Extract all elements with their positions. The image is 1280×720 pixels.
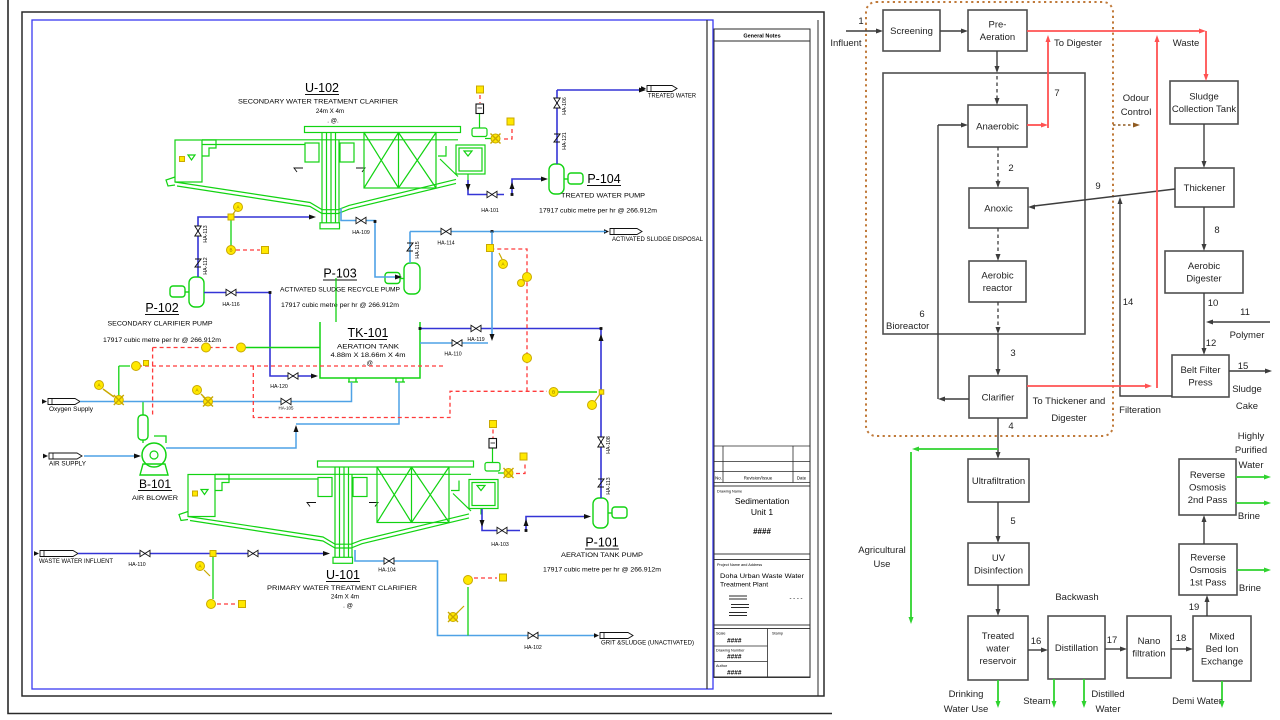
actuator HA-121 [554, 134, 560, 142]
instrument cluster U-102 drive [477, 86, 484, 93]
valve HA-110b [452, 340, 462, 346]
general notes header [714, 40, 810, 42]
svg-text:Revision/Issue: Revision/Issue [744, 476, 773, 481]
svg-text:11: 11 [1240, 307, 1250, 318]
svg-text:18: 18 [1176, 633, 1187, 644]
svg-text:Agricultural: Agricultural [858, 545, 906, 556]
dashed arrow anoxic to aerobic [997, 228, 999, 255]
svg-text:Bioreactor: Bioreactor [886, 321, 929, 332]
svg-text:####: #### [727, 638, 742, 645]
svg-text:Press: Press [1188, 378, 1213, 389]
svg-text:TREATED WATER: TREATED WATER [648, 93, 696, 100]
svg-text:1st Pass: 1st Pass [1190, 577, 1227, 588]
pipe air supply [84, 455, 139, 457]
signal dash U-101 agitator [474, 577, 497, 579]
sheet border [22, 12, 824, 696]
box Aerobic reactor [969, 261, 1026, 302]
signal dash U-101 top [493, 430, 525, 474]
svg-text:14: 14 [1123, 297, 1134, 308]
svg-text:9: 9 [1095, 181, 1100, 192]
signal dash main loop [153, 347, 238, 349]
svg-text:Distillation: Distillation [1055, 643, 1098, 654]
svg-text:WASTE WATER INFLUENT: WASTE WATER INFLUENT [39, 558, 113, 565]
svg-text:HA-106: HA-106 [562, 97, 568, 115]
svg-text:Exchange: Exchange [1201, 656, 1243, 667]
svg-text:HA-108: HA-108 [606, 436, 612, 454]
svg-text:Mixed: Mixed [1209, 631, 1234, 642]
svg-text:B-101: B-101 [139, 477, 171, 491]
svg-text:Doha Urban Waste Water: Doha Urban Waste Water [720, 573, 805, 580]
arrow 16 reservoir to distillation [1028, 649, 1042, 651]
svg-text:24m X 4m: 24m X 4m [331, 594, 359, 601]
svg-text:Oxygen Supply: Oxygen Supply [49, 406, 94, 413]
svg-text:Disinfection: Disinfection [974, 566, 1023, 577]
svg-text:A: A [97, 383, 100, 388]
air blower B-101 [142, 443, 166, 467]
svg-text:HA-115: HA-115 [415, 241, 421, 258]
pipe U-101 underflow to P-101 [482, 509, 588, 531]
pipe U-101 drain [355, 550, 594, 636]
actuator HA-115 [407, 243, 413, 251]
valve HA-109 [356, 217, 366, 223]
pipe oxygen supply [80, 382, 352, 402]
svg-text:AIR SUPPLY: AIR SUPPLY [49, 461, 86, 468]
svg-text:####: #### [753, 527, 771, 536]
instrument left tank marks [180, 157, 185, 162]
svg-text:HA-120: HA-120 [270, 384, 288, 390]
arrow UV to reservoir [997, 585, 999, 610]
svg-text:Aerobic: Aerobic [981, 271, 1013, 282]
svg-text:Date: Date [797, 476, 807, 481]
pump P-102 [189, 277, 204, 307]
svg-text:17917 cubic metre per hr @ 266: 17917 cubic metre per hr @ 266.912m [539, 208, 657, 215]
svg-text:Polymer: Polymer [1230, 330, 1265, 341]
svg-text:Reverse: Reverse [1190, 470, 1225, 481]
box Reverse Osmosis 2nd Pass [1179, 459, 1236, 515]
arrow pre-aeration down [996, 51, 998, 67]
svg-text:HA-113: HA-113 [606, 477, 612, 494]
box Thickener [1175, 168, 1234, 207]
svg-text:water: water [985, 643, 1009, 654]
pipe U-102 underflow to P-103 [341, 208, 400, 277]
svg-text:HA-109: HA-109 [352, 230, 370, 236]
arrow influent [846, 30, 877, 32]
svg-text:17917 cubic metre per hr @ 266: 17917 cubic metre per hr @ 266.912m [103, 337, 221, 344]
svg-text:Treated: Treated [982, 631, 1014, 642]
svg-text:Unit 1: Unit 1 [751, 507, 773, 517]
svg-text:Screening: Screening [890, 26, 933, 37]
svg-text:AERATION TANK PUMP: AERATION TANK PUMP [561, 552, 643, 559]
valve HA-110a [140, 550, 150, 556]
arrow 19 mixed bed to RO1 [1206, 601, 1208, 616]
valve HA-105 [281, 398, 291, 404]
signal dash U-102 top [480, 95, 512, 139]
pump P-104 [549, 164, 564, 194]
box Aerobic Digester [1165, 251, 1243, 293]
drawing name box [714, 486, 810, 554]
svg-text:A: A [501, 262, 504, 267]
valve HA-120 [288, 373, 298, 379]
svg-text:HA-104: HA-104 [378, 568, 396, 574]
arrow P-101 riser [599, 334, 604, 341]
svg-text:Odour: Odour [1123, 93, 1149, 104]
svg-text:B: B [229, 248, 232, 253]
flag Oxygen Supply [48, 399, 80, 405]
green drop influent [212, 554, 214, 600]
instrument green TK line [202, 343, 211, 352]
svg-text:Digester: Digester [1051, 413, 1086, 424]
svg-text:A: A [195, 388, 198, 393]
svg-text:. @: . @ [343, 603, 353, 610]
instrument cluster U-101 drive [490, 421, 497, 428]
svg-text:4: 4 [1008, 421, 1013, 432]
valve HA-106 [554, 98, 560, 108]
svg-text:Pre-: Pre- [989, 20, 1007, 31]
svg-text:Reverse: Reverse [1190, 552, 1225, 563]
pipe P-104 riser [556, 90, 558, 164]
filtrate return line 14 [1120, 203, 1172, 396]
polymer feed [1212, 321, 1270, 323]
scale/author box [714, 629, 810, 678]
svg-text:2: 2 [1008, 163, 1013, 174]
svg-text:PRIMARY WATER TREATMENT CLARIF: PRIMARY WATER TREATMENT CLARIFIER [267, 585, 418, 592]
svg-text:Drinking: Drinking [949, 689, 984, 700]
svg-text:Drawing Name: Drawing Name [717, 490, 742, 494]
box Anaerobic [968, 105, 1027, 147]
svg-text:17: 17 [1107, 635, 1118, 646]
box Mixed Bed Ion Exchange [1193, 616, 1251, 681]
svg-text:HA-105: HA-105 [279, 406, 294, 411]
svg-text:Aerobic: Aerobic [1188, 261, 1220, 272]
svg-text:12: 12 [1206, 338, 1217, 349]
svg-text:To Thickener and: To Thickener and [1033, 396, 1106, 407]
recycle line 6 [944, 398, 969, 400]
scan page edge [8, 0, 832, 714]
svg-text:To Digester: To Digester [1054, 38, 1102, 49]
B-101 suction vessel [138, 415, 148, 440]
arrow sludge tank to thickener [1203, 124, 1205, 162]
svg-text:reservoir: reservoir [980, 656, 1017, 667]
svg-text:8: 8 [1214, 225, 1219, 236]
svg-text:HA-121: HA-121 [562, 132, 568, 150]
valve HA-113a [195, 226, 201, 236]
svg-text:Waste: Waste [1173, 38, 1200, 49]
clarifier U-101 [179, 448, 506, 563]
svg-text:P-104: P-104 [587, 172, 620, 186]
svg-text:Sedimentation: Sedimentation [735, 496, 790, 506]
svg-text:Osmosis: Osmosis [1190, 565, 1227, 576]
svg-text:Bed Ion: Bed Ion [1206, 644, 1239, 655]
flag AIR SUPPLY [49, 453, 82, 459]
svg-text:Control: Control [1121, 107, 1152, 118]
pump P-101 [593, 498, 608, 528]
pipe P-102 suction [198, 217, 311, 277]
arrow screening to pre-aeration [940, 30, 962, 32]
svg-text:reactor: reactor [983, 283, 1013, 294]
svg-text:6: 6 [919, 309, 924, 320]
actuator HA-112 [195, 259, 201, 267]
svg-text:4.88m X 18.66m X 4m: 4.88m X 18.66m X 4m [331, 352, 406, 359]
green RO2 outputs [1236, 476, 1264, 478]
svg-text:Digester: Digester [1186, 274, 1221, 285]
svg-text:AIR BLOWER: AIR BLOWER [132, 495, 179, 502]
valve HA-108 [598, 437, 604, 447]
valve HA-116 [226, 289, 236, 295]
green riser oxygen [119, 366, 130, 396]
svg-text:filtration: filtration [1132, 649, 1165, 660]
instrument U-101 pump riser [549, 388, 558, 397]
instrument P-102 suction [228, 214, 234, 220]
svg-text:U-101: U-101 [326, 568, 360, 582]
pipe TK-101 outlet [420, 329, 601, 499]
line 9 thickener to anoxic [1034, 189, 1175, 206]
pipe waste water influent [78, 553, 325, 555]
flag ACTIVATED SLUDGE DISPOSAL [610, 229, 642, 235]
instrument U-101 effluent [504, 469, 513, 478]
signal dash pair P-102 [236, 249, 260, 251]
pipe treated water header [557, 89, 641, 91]
svg-text:HA-110: HA-110 [444, 352, 461, 358]
red clarifier waste [1027, 385, 1145, 387]
instrument oxygen line 2 [193, 386, 202, 395]
box UV Disinfection [968, 543, 1029, 585]
svg-text:24m X 4m: 24m X 4m [316, 108, 344, 115]
svg-text:HA-119: HA-119 [467, 337, 484, 343]
green distilled water [1083, 679, 1085, 701]
arrow digester to belt press [1203, 293, 1205, 349]
flag WASTE WATER INFLUENT [40, 551, 78, 557]
pipe P-102 discharge [204, 293, 316, 377]
box Nano filtration [1127, 616, 1171, 678]
svg-text:Brine: Brine [1239, 583, 1261, 594]
title block divider [706, 20, 708, 689]
svg-text:Steam: Steam [1023, 696, 1051, 707]
svg-text:Aeration: Aeration [980, 32, 1015, 43]
svg-text:3: 3 [1010, 348, 1015, 359]
svg-text:HA-103: HA-103 [491, 542, 509, 548]
svg-text:Filteration: Filteration [1119, 405, 1161, 416]
svg-text:TK-101: TK-101 [348, 326, 389, 340]
arrow 18 nano to mixed bed [1171, 648, 1187, 650]
arrow thickener to digester [1203, 207, 1205, 245]
actuator HA-113b [598, 479, 604, 487]
svg-text:####: #### [727, 654, 742, 661]
svg-text:AERATION TANK: AERATION TANK [337, 344, 400, 351]
svg-text:10: 10 [1208, 298, 1219, 309]
box Pre-Aeration [968, 10, 1027, 51]
svg-text:ACTIVATED SLUDGE DISPOSAL: ACTIVATED SLUDGE DISPOSAL [612, 236, 704, 243]
svg-text:Water Use: Water Use [944, 704, 989, 715]
odour control arrow [1113, 124, 1133, 126]
svg-text:Author: Author [716, 664, 728, 668]
valve HA-114 [441, 228, 451, 234]
svg-text:Scale: Scale [716, 632, 726, 636]
svg-text:HA-110: HA-110 [128, 562, 145, 568]
svg-text:Sludge: Sludge [1189, 92, 1219, 103]
svg-text:GRIT &SLUDGE (UNACTIVATED): GRIT &SLUDGE (UNACTIVATED) [601, 640, 694, 647]
pump P-103 [404, 263, 420, 294]
svg-text:17917 cubic metre per hr @ 266: 17917 cubic metre per hr @ 266.912m [543, 567, 661, 574]
svg-text:P-102: P-102 [145, 301, 178, 315]
box Ultrafiltration [968, 459, 1029, 502]
svg-text:7: 7 [1054, 88, 1059, 99]
svg-text:Ultrafiltration: Ultrafiltration [972, 476, 1025, 487]
svg-text:HA-102: HA-102 [524, 645, 542, 651]
svg-text:Influent: Influent [830, 38, 862, 49]
valve HA-104 [384, 558, 394, 564]
svg-text:Project Name and Address: Project Name and Address [717, 563, 762, 567]
green drop at P-102 suction [230, 217, 232, 246]
svg-text:15: 15 [1238, 361, 1249, 372]
svg-text:Drawing Number: Drawing Number [716, 649, 745, 653]
arrow 17 distillation to nano [1105, 648, 1121, 650]
svg-text:Brine: Brine [1238, 511, 1260, 522]
svg-text:A: A [236, 205, 239, 210]
pipe P-103 riser [409, 232, 411, 264]
svg-text:Cake: Cake [1236, 401, 1258, 412]
clarifier U-102 [166, 114, 493, 229]
svg-text:HA-114: HA-114 [437, 241, 454, 247]
svg-text:UV: UV [992, 553, 1006, 564]
plant boundary dotted [866, 2, 1113, 436]
svg-text:Highly: Highly [1238, 431, 1265, 442]
valve HA-102 [528, 632, 538, 638]
instrument disposal junction [487, 245, 494, 252]
green RO1 brine [1237, 569, 1264, 571]
arrow into clarifier [997, 334, 999, 370]
arrow ultrafiltration to UV [997, 502, 999, 537]
svg-text:Belt Filter: Belt Filter [1180, 365, 1220, 376]
box Anoxic [969, 188, 1028, 228]
green demi water [1221, 681, 1223, 701]
box Screening [883, 10, 940, 51]
svg-text:Stamp: Stamp [772, 632, 783, 636]
svg-text:HA-113: HA-113 [203, 225, 209, 242]
flag TREATED WATER [647, 86, 677, 92]
signal dash influent pair [217, 603, 236, 605]
svg-text:17917 cubic metre per hr @ 266: 17917 cubic metre per hr @ 266.912m [281, 302, 399, 309]
box Clarifier [969, 376, 1027, 418]
instrument grit line [464, 576, 473, 585]
svg-text:Purified: Purified [1235, 445, 1267, 456]
green line to TK-101 [245, 347, 320, 349]
svg-text:16: 16 [1031, 636, 1042, 647]
valve HA-101 [487, 191, 497, 197]
svg-text:Sludge: Sludge [1232, 384, 1262, 395]
svg-text:SECONDARY CLARIFIER PUMP: SECONDARY CLARIFIER PUMP [108, 321, 213, 328]
svg-text:Nano: Nano [1138, 636, 1161, 647]
pipe activated sludge disposal [410, 231, 606, 233]
arrow RO1 to RO2 [1203, 521, 1205, 544]
blue inner border [32, 20, 713, 689]
svg-text:TREATED WATER PUMP: TREATED WATER PUMP [561, 193, 645, 200]
svg-text:General Notes: General Notes [743, 34, 780, 40]
red line 7 anaerobic [1027, 124, 1041, 126]
svg-text:Thickener: Thickener [1184, 183, 1226, 194]
arrow sludge cake [1229, 370, 1266, 372]
svg-text:B: B [552, 390, 555, 395]
svg-text:2nd Pass: 2nd Pass [1188, 495, 1228, 506]
svg-text:U-102: U-102 [305, 81, 339, 95]
green instrument stub U-101 [558, 391, 597, 393]
svg-text:Treatment Plant: Treatment Plant [720, 582, 768, 589]
svg-text:Use: Use [874, 559, 891, 570]
svg-text:####: #### [727, 670, 742, 677]
svg-text:5: 5 [1010, 516, 1015, 527]
green agricultural line [919, 448, 998, 450]
svg-text:. @.: . @. [327, 118, 339, 125]
svg-text:P-101: P-101 [585, 536, 618, 550]
svg-text:Anaerobic: Anaerobic [976, 121, 1019, 132]
svg-text:P-103: P-103 [323, 267, 356, 281]
project name box [714, 560, 810, 626]
revision table [714, 446, 810, 483]
svg-text:Distilled: Distilled [1091, 689, 1124, 700]
pipe TK-101 inlet 2 [420, 342, 488, 344]
svg-text:1: 1 [858, 16, 863, 27]
pipe blower air header [166, 382, 399, 448]
svg-text:Water: Water [1239, 460, 1264, 471]
instrument dash column [523, 273, 532, 282]
red waste header [1027, 30, 1200, 32]
dashed arrow aerobic reactor down [997, 302, 999, 328]
svg-text:ACTIVATED SLUDGE RECYCLE PUMP: ACTIVATED SLUDGE RECYCLE PUMP [280, 287, 400, 294]
svg-text:A: A [198, 564, 201, 569]
dashed arrow anaerobic to anoxic [997, 147, 999, 182]
instrument influent [210, 551, 216, 557]
svg-text:HA-101: HA-101 [481, 208, 499, 214]
svg-text:SECONDARY WATER TREATMENT CLAR: SECONDARY WATER TREATMENT CLARIFIER [238, 99, 399, 106]
pipe disposal branch down [491, 232, 493, 339]
svg-text:Backwash: Backwash [1055, 592, 1098, 603]
box Distillation [1048, 616, 1105, 679]
green drinking water [997, 680, 999, 701]
title block frame [714, 29, 810, 677]
box Treated water reservoir [968, 616, 1028, 680]
svg-text:Demi Water: Demi Water [1172, 696, 1222, 707]
red drop to sludge tank [1205, 31, 1207, 75]
instrument U-102 effluent [491, 134, 500, 143]
valve influent 2 [248, 550, 258, 556]
valve HA-103 [497, 527, 507, 533]
aeration tank TK-101 [320, 322, 420, 378]
svg-text:Collection Tank: Collection Tank [1172, 104, 1237, 115]
svg-text:19: 19 [1189, 602, 1200, 613]
valve HA-119 [471, 325, 481, 331]
svg-text:Water: Water [1096, 704, 1121, 715]
svg-text:No.: No. [715, 476, 722, 481]
box Reverse Osmosis 1st Pass [1179, 544, 1237, 595]
svg-text:HA-116: HA-116 [222, 302, 239, 308]
green agitator drop U-101 [467, 587, 469, 636]
box Sludge Collection Tank [1170, 81, 1238, 124]
svg-text:Osmosis: Osmosis [1189, 482, 1226, 493]
bioreactor container [883, 73, 1085, 334]
green steam [1053, 679, 1055, 701]
flag GRIT & SLUDGE [600, 633, 633, 639]
svg-text:Anoxic: Anoxic [984, 203, 1013, 214]
svg-text:HA-112: HA-112 [203, 257, 209, 274]
box Belt Filter Press [1172, 355, 1229, 397]
instrument oxygen line [132, 362, 141, 371]
svg-text:Clarifier: Clarifier [982, 392, 1015, 403]
svg-text:- - - -: - - - - [790, 596, 803, 602]
pipe U-102 effluent to P-104 [468, 179, 543, 195]
dashed arrow into anaerobic [996, 76, 998, 99]
arrow clarifier to ultrafiltration [997, 418, 999, 453]
